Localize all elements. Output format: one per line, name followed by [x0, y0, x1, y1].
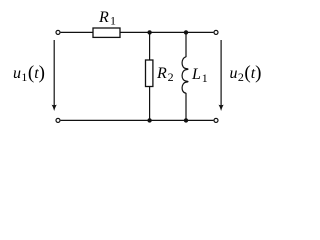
arrow u2	[218, 40, 223, 111]
terminal top-left	[56, 30, 60, 34]
terminal bottom-right	[214, 118, 218, 122]
wire R1 to top-right terminal	[120, 31, 213, 33]
wire L1 branch bottom	[185, 93, 187, 120]
arrow u1	[52, 40, 57, 111]
wire R2 branch top	[149, 32, 151, 60]
wire bottom	[61, 119, 214, 121]
node junction bottom R2	[147, 118, 151, 122]
wire top-left to R1	[61, 31, 93, 33]
resistor R1	[93, 28, 120, 37]
node junction bottom L1	[184, 118, 188, 122]
resistor R2	[146, 60, 153, 87]
terminal bottom-left	[56, 118, 60, 122]
wire L1 branch top	[185, 32, 187, 57]
wire R2 branch bottom	[149, 87, 151, 121]
terminal top-right	[214, 30, 218, 34]
svg-text:u1(t): u1(t)	[13, 63, 45, 85]
inductor L1	[182, 57, 188, 93]
node junction top R2	[147, 30, 151, 34]
node junction top L1	[184, 30, 188, 34]
svg-text:u2(t): u2(t)	[230, 63, 262, 85]
